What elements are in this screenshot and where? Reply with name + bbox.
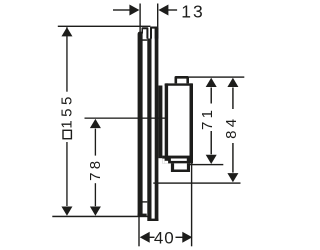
svg-text:84: 84 [223, 116, 240, 139]
svg-text:40: 40 [154, 229, 175, 248]
svg-text:13: 13 [181, 1, 204, 21]
svg-text:71: 71 [199, 107, 216, 130]
svg-text:78: 78 [87, 158, 104, 181]
svg-text:155: 155 [59, 93, 76, 129]
